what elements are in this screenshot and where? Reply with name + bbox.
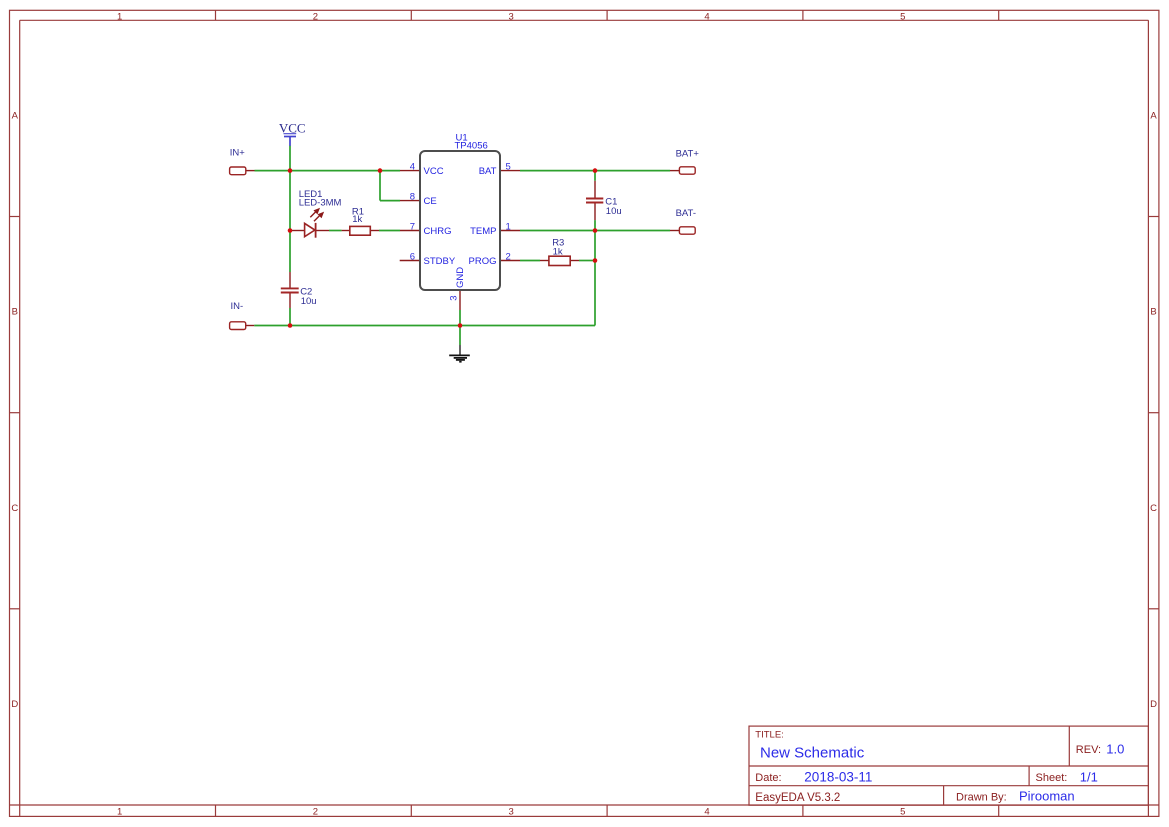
- svg-text:Date:: Date:: [755, 772, 781, 784]
- svg-text:EasyEDA V5.3.2: EasyEDA V5.3.2: [755, 792, 840, 804]
- svg-text:C: C: [11, 503, 18, 514]
- svg-text:A: A: [12, 110, 19, 121]
- svg-text:1: 1: [117, 806, 122, 817]
- svg-text:3: 3: [509, 806, 514, 817]
- svg-text:1k: 1k: [352, 214, 362, 225]
- svg-text:CHRG: CHRG: [424, 226, 452, 237]
- svg-text:1: 1: [506, 221, 511, 232]
- svg-text:STDBY: STDBY: [424, 256, 456, 267]
- svg-text:5: 5: [506, 161, 511, 172]
- svg-text:CE: CE: [424, 196, 437, 207]
- svg-text:5: 5: [900, 806, 905, 817]
- svg-text:8: 8: [410, 191, 415, 202]
- svg-text:LED-3MM: LED-3MM: [299, 197, 342, 208]
- svg-text:IN-: IN-: [231, 301, 244, 312]
- svg-text:BAT-: BAT-: [676, 208, 696, 219]
- svg-text:3: 3: [449, 296, 460, 301]
- svg-text:1/1: 1/1: [1080, 770, 1098, 785]
- svg-text:7: 7: [410, 221, 415, 232]
- svg-text:B: B: [1150, 307, 1156, 318]
- svg-text:Drawn By:: Drawn By:: [956, 792, 1007, 804]
- svg-text:VCC: VCC: [424, 166, 444, 177]
- svg-text:2018-03-11: 2018-03-11: [804, 769, 872, 784]
- svg-text:Pirooman: Pirooman: [1019, 789, 1075, 804]
- svg-text:5: 5: [900, 11, 905, 22]
- svg-text:A: A: [1150, 110, 1157, 121]
- svg-text:4: 4: [704, 806, 709, 817]
- svg-text:10u: 10u: [301, 296, 317, 307]
- svg-text:Sheet:: Sheet:: [1036, 772, 1068, 784]
- svg-text:4: 4: [410, 161, 415, 172]
- svg-text:D: D: [1150, 699, 1157, 710]
- svg-text:6: 6: [410, 251, 415, 262]
- svg-text:4: 4: [704, 11, 709, 22]
- svg-text:2: 2: [506, 251, 511, 262]
- svg-text:3: 3: [509, 11, 514, 22]
- svg-text:PROG: PROG: [469, 256, 497, 267]
- svg-text:BAT: BAT: [479, 166, 497, 177]
- svg-text:TP4056: TP4056: [455, 141, 488, 152]
- svg-text:10u: 10u: [606, 206, 622, 217]
- svg-text:B: B: [12, 307, 18, 318]
- svg-text:BAT+: BAT+: [676, 148, 700, 159]
- svg-text:TITLE:: TITLE:: [755, 730, 784, 741]
- svg-text:New Schematic: New Schematic: [760, 744, 865, 761]
- svg-text:1.0: 1.0: [1106, 741, 1124, 756]
- svg-text:2: 2: [313, 806, 318, 817]
- svg-text:REV:: REV:: [1076, 744, 1101, 756]
- svg-text:1k: 1k: [553, 247, 563, 258]
- svg-text:TEMP: TEMP: [470, 226, 496, 237]
- svg-text:D: D: [11, 699, 18, 710]
- svg-text:GND: GND: [455, 267, 466, 288]
- svg-text:1: 1: [117, 11, 122, 22]
- svg-text:IN+: IN+: [230, 148, 246, 159]
- svg-text:C: C: [1150, 503, 1157, 514]
- svg-text:2: 2: [313, 11, 318, 22]
